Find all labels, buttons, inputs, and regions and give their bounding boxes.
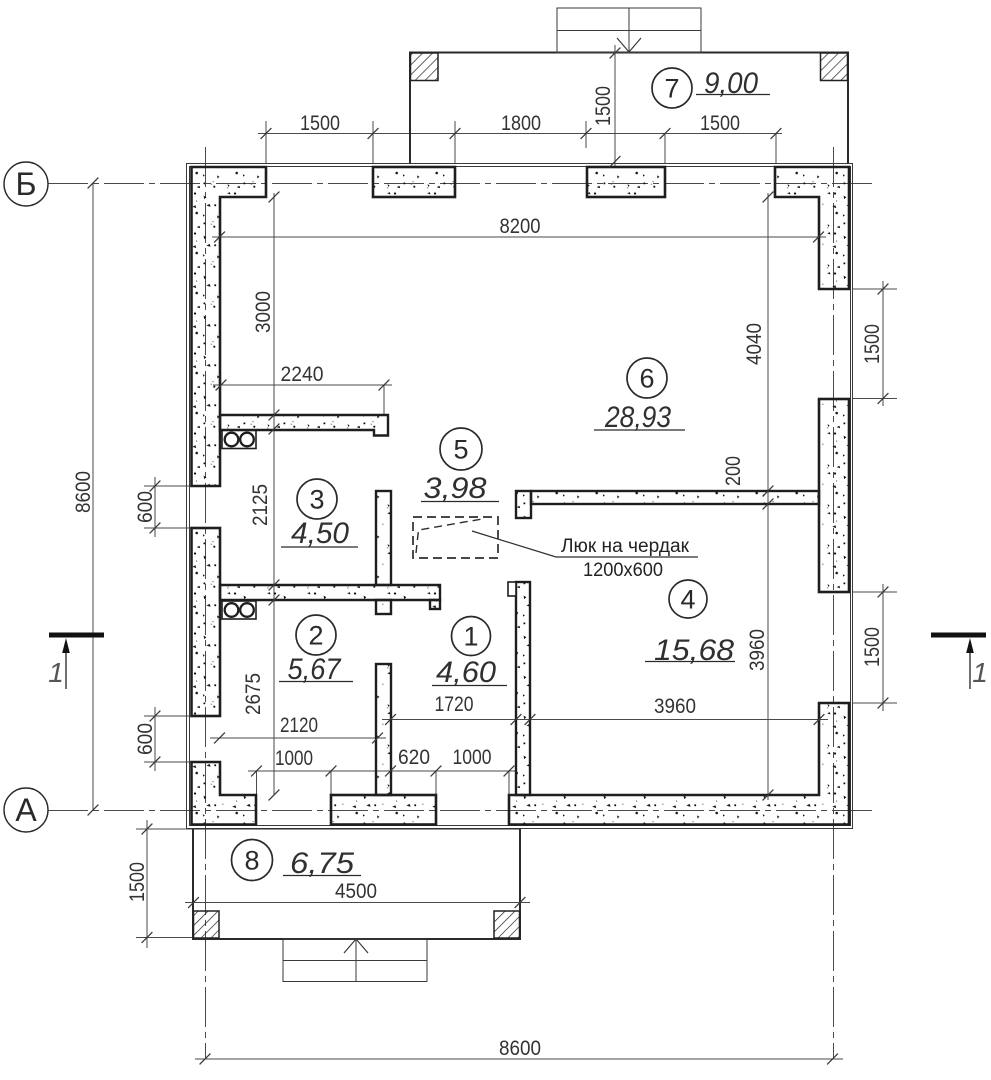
svg-text:620: 620: [398, 746, 430, 769]
svg-text:1720: 1720: [435, 693, 474, 716]
svg-text:3,98: 3,98: [424, 472, 487, 505]
svg-text:200: 200: [722, 456, 745, 486]
svg-text:2120: 2120: [280, 714, 318, 737]
svg-text:3000: 3000: [252, 291, 275, 333]
svg-text:1800: 1800: [501, 112, 541, 135]
svg-text:4500: 4500: [335, 880, 377, 903]
svg-text:4: 4: [680, 585, 695, 615]
svg-text:8600: 8600: [499, 1037, 541, 1060]
svg-text:7: 7: [664, 74, 679, 104]
svg-text:1200x600: 1200x600: [583, 560, 663, 581]
svg-text:2675: 2675: [242, 673, 265, 715]
svg-text:2125: 2125: [249, 484, 272, 526]
svg-text:1000: 1000: [275, 747, 313, 770]
svg-text:8200: 8200: [500, 215, 541, 238]
svg-text:6: 6: [639, 364, 654, 394]
svg-text:Люк на чердак: Люк на чердак: [561, 536, 690, 557]
svg-text:4,50: 4,50: [291, 517, 349, 550]
svg-text:600: 600: [134, 723, 157, 755]
svg-text:1500: 1500: [861, 627, 884, 667]
svg-text:А: А: [15, 792, 37, 828]
svg-text:1: 1: [972, 657, 988, 688]
svg-text:1500: 1500: [700, 112, 740, 135]
svg-text:3960: 3960: [746, 629, 769, 671]
svg-text:2240: 2240: [281, 363, 324, 386]
svg-text:4,60: 4,60: [436, 656, 496, 689]
svg-text:600: 600: [134, 491, 157, 523]
svg-text:5: 5: [453, 435, 468, 465]
svg-text:1500: 1500: [861, 324, 884, 364]
svg-text:1: 1: [48, 657, 64, 688]
svg-text:4040: 4040: [743, 323, 766, 365]
svg-text:1: 1: [463, 622, 478, 652]
svg-text:2: 2: [308, 621, 323, 651]
svg-text:1500: 1500: [592, 86, 615, 126]
svg-text:3960: 3960: [654, 695, 696, 718]
svg-text:8600: 8600: [72, 471, 95, 513]
svg-text:28,93: 28,93: [604, 401, 671, 434]
svg-text:1500: 1500: [126, 862, 149, 902]
svg-text:1500: 1500: [300, 112, 340, 135]
svg-text:3: 3: [309, 485, 324, 515]
svg-text:Б: Б: [16, 166, 37, 202]
svg-text:8: 8: [244, 846, 259, 876]
svg-text:1000: 1000: [453, 746, 492, 769]
